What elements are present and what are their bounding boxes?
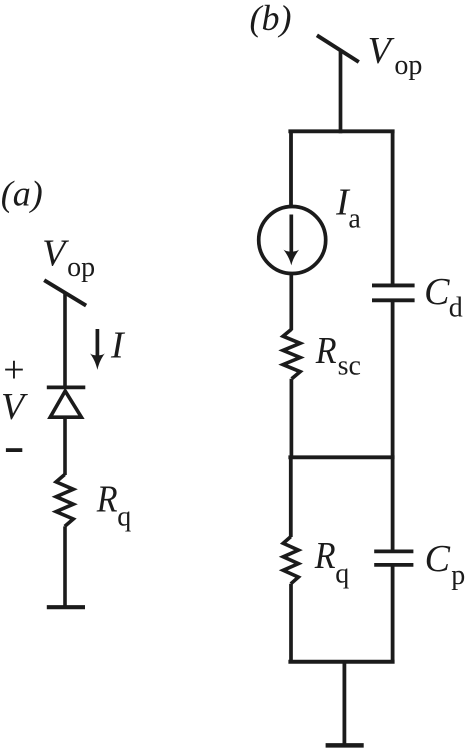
wire top rail (b) [288, 129, 394, 133]
current source Ia arrow [283, 215, 299, 266]
wire middle rail to Cp [391, 457, 395, 551]
wire middle rail (node between Rsc and Rq) [288, 455, 394, 459]
label Rsc [315, 330, 361, 382]
node Vop label (a) [42, 233, 95, 283]
wire top rail to current source (b) [289, 131, 293, 207]
svg-text:op: op [67, 252, 95, 283]
wire diode to resistor (a) [63, 417, 67, 475]
terminal bar (a) [47, 605, 85, 609]
switch terminal slash (b) [317, 35, 359, 62]
photodiode D (a): cathode bar [47, 385, 86, 389]
label Ia [335, 182, 361, 235]
svg-text:R: R [96, 478, 118, 520]
wire resistor to terminal (a) [63, 526, 67, 607]
wire Vop stub (b) [339, 50, 343, 134]
svg-text:p: p [451, 560, 465, 591]
wire Vop to diode (a) [63, 293, 67, 388]
current arrow I (a) [90, 329, 105, 370]
svg-text:C: C [424, 271, 450, 313]
label Rq (b) [314, 535, 349, 590]
wire Rq to bottom rail (b) [289, 584, 293, 664]
label minus (diode cathode polarity) [6, 448, 22, 452]
svg-text:sc: sc [338, 351, 361, 382]
svg-text:+: + [3, 349, 24, 391]
svg-text:op: op [394, 50, 422, 81]
capacitor Cp bottom plate [374, 563, 413, 567]
resistor Rq (b) [283, 537, 298, 584]
resistor Rsc [283, 329, 300, 379]
svg-text:(b): (b) [250, 0, 292, 38]
svg-text:R: R [314, 535, 336, 577]
svg-text:d: d [449, 292, 463, 323]
svg-text:I: I [110, 325, 126, 367]
wire middle rail to Rq (b) [289, 457, 293, 537]
wire current source to Rsc [289, 274, 293, 331]
photodiode D (a): triangle [50, 391, 81, 417]
svg-text:V: V [368, 30, 395, 72]
node Vop label (b) [368, 30, 423, 81]
svg-text:a: a [348, 203, 361, 234]
svg-text:(a): (a) [1, 173, 43, 213]
svg-text:V: V [42, 233, 69, 275]
terminal bar (b) [326, 743, 364, 748]
wire Cd to middle rail [391, 300, 395, 459]
capacitor Cd bottom plate [372, 298, 415, 302]
label Cp [425, 538, 466, 591]
wire Rsc to middle rail [290, 379, 294, 459]
svg-text:q: q [335, 559, 349, 590]
wire bottom rail to ground terminal [342, 662, 346, 746]
switch terminal slash (a) [44, 280, 86, 305]
svg-text:V: V [1, 386, 28, 428]
capacitor Cp top plate [374, 550, 413, 554]
wire top rail to Cd [391, 131, 395, 285]
current source Ia circle [259, 207, 326, 274]
wire bottom rail (b) [288, 660, 394, 664]
svg-text:C: C [425, 538, 451, 580]
label Cd [424, 271, 463, 324]
svg-text:q: q [117, 501, 131, 532]
label Rq (a) [96, 478, 131, 532]
capacitor Cd top plate [372, 283, 415, 287]
svg-text:R: R [315, 330, 337, 372]
resistor Rq (a) [56, 475, 73, 527]
wire Cp to bottom rail [391, 565, 395, 664]
